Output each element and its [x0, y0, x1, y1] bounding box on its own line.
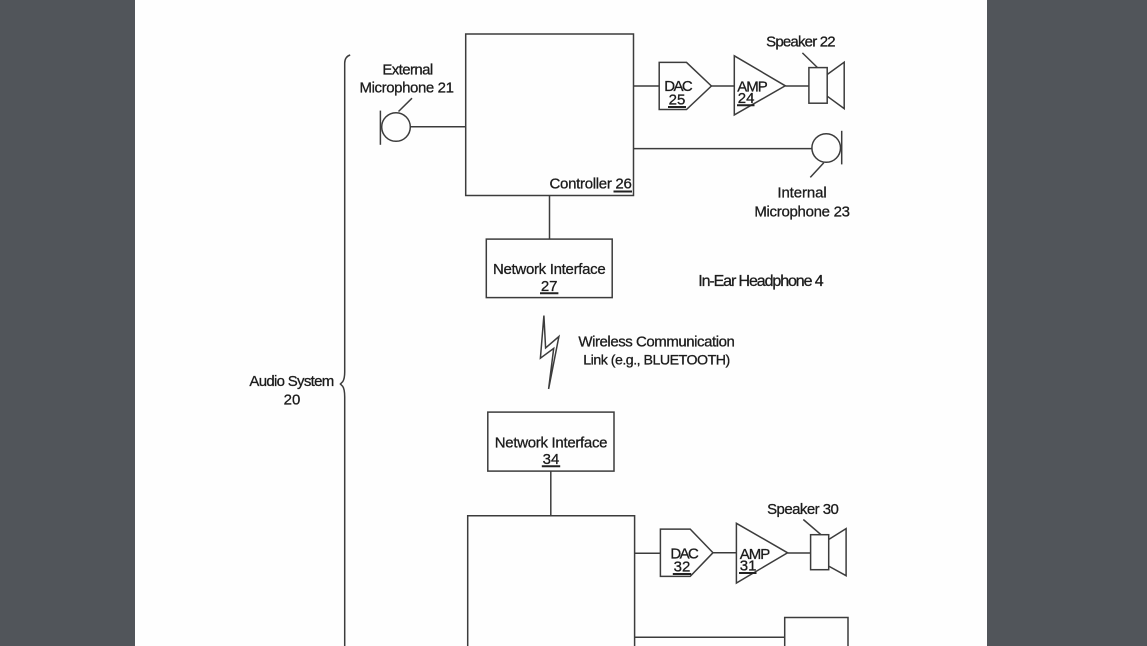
- speaker 22 pointer line: [802, 53, 817, 68]
- wire controller to network interface 27: [549, 196, 551, 240]
- svg-text:25: 25: [669, 92, 686, 109]
- underline 34: [542, 465, 560, 467]
- wire DAC25 to AMP24: [711, 85, 734, 87]
- underline 25: [668, 106, 686, 108]
- underline 31: [739, 572, 757, 574]
- underline 24: [737, 104, 755, 106]
- page background: [135, 0, 987, 646]
- DAC 25 pentagon: [659, 62, 711, 109]
- svg-text:In-Ear Headphone 4: In-Ear Headphone 4: [698, 273, 824, 290]
- svg-text:External: External: [382, 62, 432, 79]
- svg-text:Microphone 21: Microphone 21: [359, 79, 453, 96]
- svg-text:20: 20: [284, 391, 301, 408]
- external microphone M21 circle: [382, 113, 411, 142]
- speaker 22 rect: [809, 68, 827, 104]
- svg-text:32: 32: [674, 559, 691, 576]
- brace Audio System 20: [340, 55, 350, 646]
- network interface 34 box: [488, 412, 614, 471]
- svg-text:Internal: Internal: [777, 184, 826, 201]
- external microphone M21 bar: [379, 111, 381, 145]
- wire AMP31 to speaker30: [788, 552, 811, 554]
- underline 27: [540, 292, 558, 294]
- wire M21 to controller: [410, 126, 465, 128]
- controller 2 box (cut at bottom): [468, 516, 635, 646]
- wire controller2 to DAC32: [635, 552, 661, 554]
- svg-text:Link (e.g., BLUETOOTH): Link (e.g., BLUETOOTH): [583, 353, 729, 369]
- svg-text:Controller 26: Controller 26: [550, 176, 632, 193]
- svg-text:Speaker 30: Speaker 30: [767, 501, 838, 518]
- svg-text:27: 27: [541, 278, 558, 295]
- AMP 24 triangle: [734, 56, 785, 115]
- underline 32: [673, 573, 691, 575]
- network interface 27 box: [486, 239, 612, 298]
- controller U26 box: [466, 34, 634, 196]
- internal microphone M23 circle: [812, 134, 841, 163]
- wire controller to internal microphone M23: [634, 148, 812, 150]
- wire controller2 to bottom box: [635, 636, 785, 638]
- lightning bolt wireless link: [540, 316, 559, 390]
- bottom right box (cut at bottom): [785, 618, 848, 646]
- svg-text:Speaker 22: Speaker 22: [766, 33, 835, 50]
- svg-text:Wireless Communication: Wireless Communication: [578, 333, 734, 350]
- AMP 31 triangle: [736, 523, 787, 583]
- wire NI34 to controller 2: [550, 471, 552, 516]
- speaker 22 horn: [827, 62, 844, 108]
- speaker 30 horn: [829, 529, 846, 576]
- speaker 30 rect: [811, 535, 829, 570]
- internal microphone M23 pointer line: [810, 163, 824, 178]
- external microphone M21 pointer line: [399, 98, 413, 111]
- svg-text:Network Interface: Network Interface: [495, 434, 607, 451]
- svg-text:Network Interface: Network Interface: [493, 261, 605, 278]
- DAC 32 pentagon: [660, 529, 713, 576]
- underline 26: [614, 191, 633, 193]
- svg-text:Audio System: Audio System: [249, 373, 333, 390]
- speaker 30 pointer line: [803, 520, 821, 535]
- svg-text:34: 34: [543, 451, 560, 468]
- wire controller to DAC25: [634, 85, 660, 87]
- wire AMP24 to speaker22: [785, 85, 809, 87]
- svg-text:Microphone 23: Microphone 23: [754, 204, 849, 221]
- internal microphone M23 bar: [841, 131, 843, 165]
- svg-text:31: 31: [740, 558, 757, 575]
- wire DAC32 to AMP31: [713, 552, 736, 554]
